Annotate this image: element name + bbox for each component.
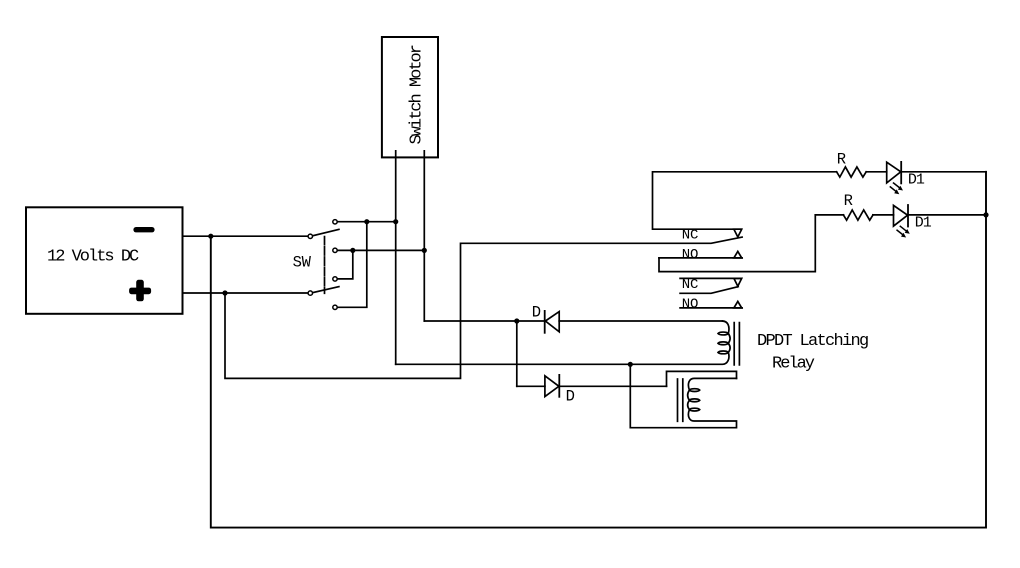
svg-text:NC: NC	[682, 227, 698, 243]
svg-text:Relay: Relay	[772, 354, 815, 373]
svg-text:NO: NO	[682, 247, 698, 263]
svg-text:Switch Motor: Switch Motor	[408, 45, 427, 144]
svg-text:D1: D1	[915, 215, 932, 232]
svg-text:D1: D1	[908, 171, 925, 188]
svg-text:D: D	[532, 303, 541, 321]
svg-text:SW: SW	[293, 254, 312, 272]
svg-text:NC: NC	[682, 277, 698, 293]
svg-text:DPDT Latching: DPDT Latching	[757, 332, 868, 351]
svg-text:12 Volts DC: 12 Volts DC	[47, 247, 139, 266]
svg-text:D: D	[566, 388, 575, 406]
svg-text:R: R	[844, 192, 853, 210]
svg-text:R: R	[837, 150, 846, 168]
svg-text:NO: NO	[682, 297, 698, 313]
